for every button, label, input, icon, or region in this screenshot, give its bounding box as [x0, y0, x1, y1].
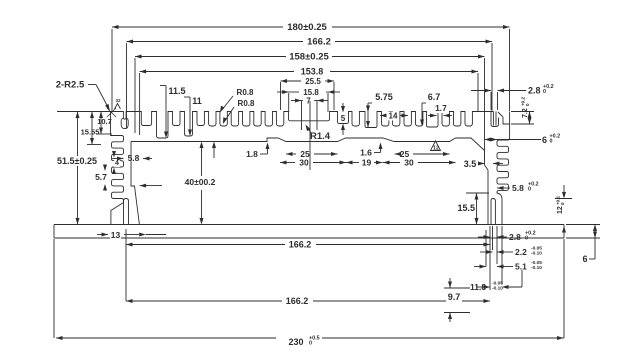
left wall outer edge with comb teeth: [111, 112, 124, 225]
dim 1.7: [428, 115, 437, 117]
svg-text:30: 30: [404, 158, 414, 168]
svg-text:5.8: 5.8: [512, 183, 524, 193]
svg-text:R0.8: R0.8: [237, 88, 254, 97]
base ext lines right: [566, 224, 600, 226]
svg-text:166.2: 166.2: [289, 240, 312, 250]
base plate: [54, 225, 564, 239]
svg-text:7.2: 7.2: [522, 108, 529, 118]
svg-text:13: 13: [111, 230, 121, 240]
svg-text:2.2: 2.2: [515, 247, 527, 257]
heatsink profile: top fin comb: [111, 112, 494, 139]
dim 4: [114, 159, 120, 167]
dim 6 +0.2/0 right: [485, 138, 492, 142]
dim 9.7: [444, 287, 470, 289]
ext lines 153.8: [139, 73, 141, 135]
top-left extension line: [57, 111, 111, 113]
svg-text:0: 0: [309, 341, 312, 347]
surface finish mark: [115, 104, 121, 110]
ext line left foot: [125, 229, 127, 301]
svg-text:2.8: 2.8: [528, 86, 541, 96]
svg-text:0: 0: [550, 139, 553, 145]
dim 40±00.2: [184, 178, 217, 188]
svg-text:1.7: 1.7: [435, 103, 447, 113]
dim 5.8 right: [497, 186, 504, 190]
dim 10.7: [100, 112, 102, 135]
left wall inner edge: [131, 142, 139, 225]
svg-text:5.7: 5.7: [95, 172, 107, 182]
svg-text:-0.05: -0.05: [531, 245, 542, 251]
svg-text:5.8: 5.8: [128, 153, 140, 163]
dim 5 fin: [342, 103, 344, 108]
right wall top screw channel: [491, 112, 499, 127]
svg-text:3.5: 3.5: [464, 159, 477, 169]
svg-text:0: 0: [525, 103, 530, 106]
slope symbol 12: [431, 141, 441, 151]
svg-text:-0.10: -0.10: [531, 265, 542, 271]
left foot slot: [124, 199, 129, 225]
dim 230 +0.5/0: [56, 336, 63, 340]
svg-text:7: 7: [306, 97, 311, 106]
svg-text:4: 4: [115, 160, 119, 167]
dim 166.2 top: [127, 40, 134, 44]
right wall inner edge: [485, 151, 489, 225]
ext lines 158: [134, 58, 136, 133]
svg-text:-0.10: -0.10: [531, 251, 542, 257]
svg-text:180±0.25: 180±0.25: [287, 22, 327, 33]
dim 15.5: [476, 193, 478, 225]
svg-text:11.5: 11.5: [168, 86, 185, 96]
dim 153.8: [140, 70, 147, 74]
right foot ext lines down: [489, 226, 491, 290]
svg-text:5: 5: [341, 114, 346, 123]
svg-text:1.8: 1.8: [246, 149, 258, 159]
dim 12 right rotated: [563, 185, 565, 197]
dim 13: [97, 234, 108, 236]
svg-text:158±0.25: 158±0.25: [289, 52, 329, 63]
dim 7.2 right rotated: [528, 112, 532, 119]
dim 158±0.25: [135, 55, 142, 59]
dim 5.8 left: [112, 158, 124, 160]
dim 25 right pocket: [395, 152, 402, 156]
corner X mark: [107, 108, 116, 117]
dim 19: [346, 161, 353, 165]
dim 14: [380, 114, 387, 118]
svg-text:0: 0: [543, 89, 546, 95]
svg-text:166.2: 166.2: [307, 37, 331, 48]
svg-text:32: 32: [115, 98, 121, 103]
svg-text:40±00.2: 40±00.2: [185, 177, 216, 187]
svg-text:2.8: 2.8: [509, 232, 521, 242]
dim 5.1 bottom right: [474, 266, 486, 268]
svg-text:5.75: 5.75: [375, 92, 393, 102]
svg-text:5.1: 5.1: [515, 262, 527, 272]
svg-text:12: 12: [433, 146, 439, 152]
dim 6 base thickness: [594, 225, 596, 239]
dim 15.55: [91, 112, 93, 145]
svg-text:-0.10: -0.10: [492, 286, 503, 292]
svg-text:14: 14: [389, 112, 398, 121]
svg-text:-0.05: -0.05: [492, 280, 503, 286]
dim 30 left pocket: [280, 161, 287, 165]
arrow to foot inner edge: [140, 185, 162, 187]
svg-text:10.7: 10.7: [97, 117, 112, 126]
svg-text:11: 11: [192, 96, 202, 106]
right wall outer edge with comb teeth: [498, 112, 510, 125]
svg-text:0: 0: [528, 187, 531, 193]
dim 11.5 leader: [160, 85, 166, 87]
svg-text:166.2: 166.2: [286, 296, 309, 306]
dim 7: [291, 100, 302, 102]
svg-text:15.55: 15.55: [81, 128, 100, 137]
svg-text:1.6: 1.6: [360, 148, 372, 158]
dim 166.2 second: [126, 299, 133, 303]
svg-text:51.5±0.25: 51.5±0.25: [57, 156, 97, 166]
svg-text:25.5: 25.5: [305, 77, 321, 86]
right foot slot: [491, 199, 495, 225]
svg-text:230: 230: [288, 337, 303, 347]
svg-text:153.8: 153.8: [301, 67, 324, 77]
dim 166.2 first: [126, 243, 133, 247]
ext lines 180: [111, 29, 113, 111]
dim 2.2 bottom right: [480, 251, 493, 253]
dim 11 leader: [184, 96, 190, 98]
svg-text:0: 0: [525, 236, 528, 242]
web bottom edge with pockets: [131, 138, 485, 151]
svg-text:6.7: 6.7: [428, 92, 441, 102]
svg-text:2-R2.5: 2-R2.5: [56, 80, 85, 91]
svg-text:30: 30: [299, 158, 309, 168]
svg-text:15.5: 15.5: [457, 203, 475, 213]
left screw port bulge: [121, 118, 128, 129]
svg-text:0: 0: [560, 202, 565, 205]
svg-text:19: 19: [362, 158, 372, 168]
dim 25 left pocket: [286, 152, 293, 156]
ext lines 166.2: [126, 43, 128, 128]
dim 15.8: [277, 91, 289, 93]
svg-text:9.7: 9.7: [448, 292, 461, 302]
dim 2.8 bottom right: [478, 236, 490, 238]
dim 51.5±0.25: [77, 112, 79, 225]
svg-text:6: 6: [542, 135, 547, 145]
svg-text:12: 12: [557, 206, 564, 214]
dim 2.8 top right: [471, 90, 491, 92]
svg-text:6: 6: [582, 254, 587, 264]
ext lines 230: [53, 239, 55, 338]
svg-text:R1.4: R1.4: [310, 131, 331, 142]
dim 30 right pocket: [383, 161, 390, 165]
svg-text:R0.8: R0.8: [238, 99, 255, 108]
dim 180±0.25: [112, 25, 119, 29]
svg-text:-0.05: -0.05: [531, 260, 542, 266]
centerline of slot cluster: [309, 101, 311, 170]
dim 25.5: [281, 79, 288, 83]
